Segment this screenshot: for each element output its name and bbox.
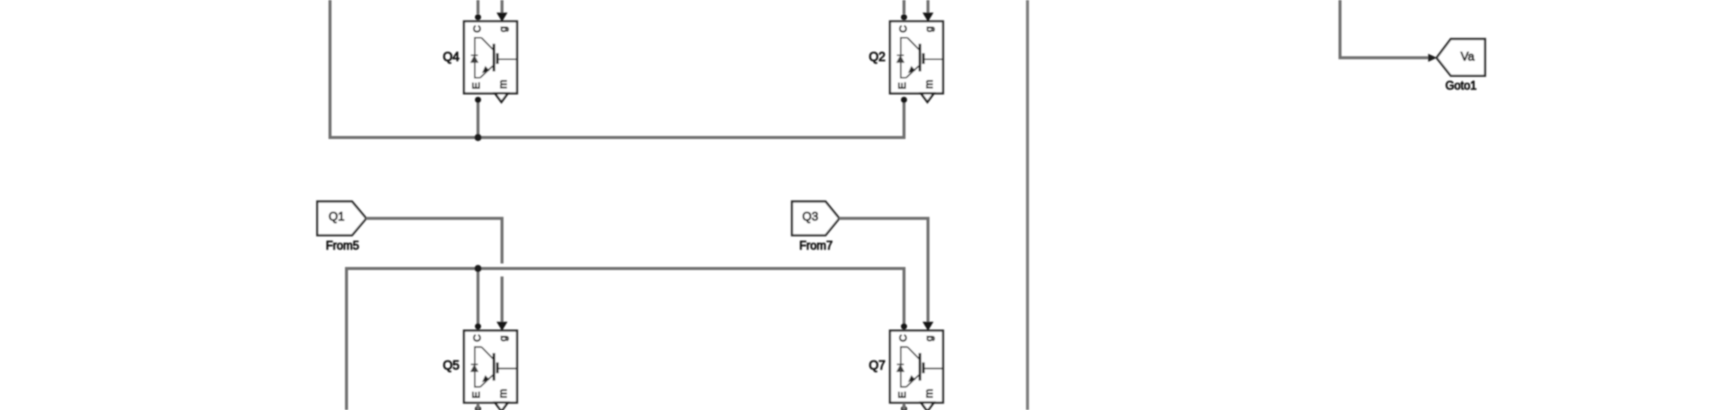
wire from Q4 emitter down to bus bbox=[477, 97, 480, 138]
wire From5 output to Q5 gate bbox=[366, 218, 502, 329]
svg-text:Goto1: Goto1 bbox=[1445, 81, 1476, 93]
wire into Q4 collector from top bbox=[477, 0, 480, 14]
wire into Q2 gate from top bbox=[927, 0, 930, 20]
svg-text:Q1: Q1 bbox=[329, 210, 345, 224]
wire below Q7 emitter bbox=[903, 403, 906, 410]
wire bus from top-left down and across to Q2 emitter bbox=[330, 0, 904, 138]
svg-text:Q4: Q4 bbox=[443, 50, 460, 64]
junction dot on lower bus bbox=[474, 265, 481, 272]
wire below Q5 emitter bbox=[477, 403, 480, 410]
wire into Q4 gate from top bbox=[501, 0, 504, 20]
wire bus from bottom-left up and across to Q7 collector bbox=[347, 269, 905, 410]
svg-text:Q5: Q5 bbox=[443, 359, 460, 373]
from block From7 bbox=[792, 202, 839, 236]
signal arrow into Goto1 bbox=[1428, 54, 1437, 62]
transistor Q2 bbox=[890, 13, 943, 103]
from block From5 bbox=[317, 202, 366, 236]
wire from bus down to Q5 collector bbox=[477, 269, 480, 326]
junction dot on emitter bus bbox=[474, 134, 481, 141]
goto block Goto1 bbox=[1437, 39, 1485, 76]
svg-text:From5: From5 bbox=[326, 240, 359, 252]
transistor Q5 bbox=[464, 322, 517, 410]
svg-text:From7: From7 bbox=[799, 240, 832, 252]
transistor Q7 bbox=[890, 322, 943, 410]
svg-text:Q2: Q2 bbox=[869, 50, 886, 64]
transistor Q4 bbox=[464, 13, 517, 103]
svg-text:Va: Va bbox=[1461, 50, 1475, 64]
wire from top right into Goto1 bbox=[1340, 0, 1429, 58]
svg-text:Q3: Q3 bbox=[802, 210, 818, 224]
svg-text:Q7: Q7 bbox=[869, 359, 886, 373]
wire into Q2 collector from top bbox=[903, 0, 906, 14]
vertical subsystem boundary line bbox=[1026, 0, 1029, 410]
wire From7 output to Q7 gate bbox=[839, 218, 928, 329]
